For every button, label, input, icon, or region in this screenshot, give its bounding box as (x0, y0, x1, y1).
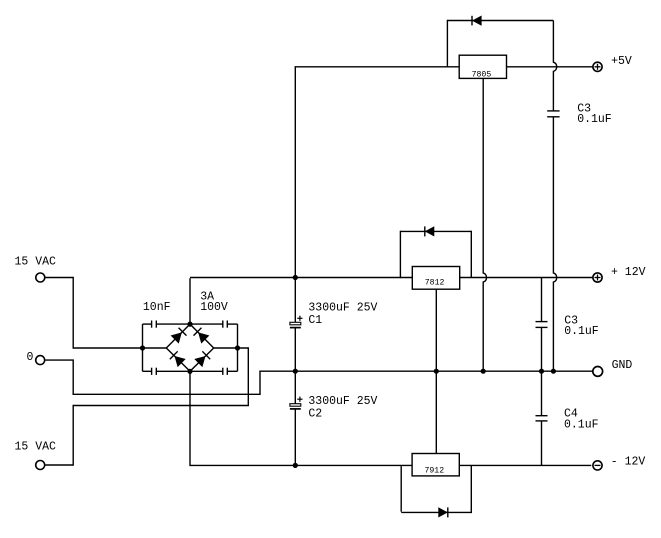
bridge frame right edge (237, 324, 239, 371)
junction GND / C3-C4 (539, 369, 544, 374)
diode bridge D3 (bottom to left) (170, 351, 185, 366)
svg-text:7912: 7912 (424, 467, 444, 476)
bridge frame bottom edge (143, 370, 238, 372)
junction raw- / C2 (293, 463, 298, 468)
bridge frame left edge (142, 324, 144, 371)
label 0 (27, 351, 34, 364)
svg-text:+ 12V: + 12V (611, 266, 646, 279)
diode D6 across 7812 (425, 226, 434, 236)
capacitor 10nF bottom-right (223, 368, 228, 375)
capacitor C4 plates (536, 416, 548, 421)
svg-text:0.1uF: 0.1uF (564, 418, 599, 431)
wire GND rail (260, 370, 592, 372)
regulator U3 7912 box (412, 454, 459, 476)
svg-text:0.1uF: 0.1uF (577, 113, 612, 126)
label 3A (200, 290, 214, 303)
wire mid C3 column (541, 278, 543, 372)
svg-text:C2: C2 (308, 408, 322, 421)
label +5V (611, 55, 632, 68)
svg-text:10nF: 10nF (143, 301, 171, 314)
regulator U2 7812 box (412, 267, 459, 290)
label - 12V (611, 455, 646, 468)
diode bridge D4 (bottom to right) (195, 351, 210, 366)
capacitor 10nF top-left (152, 321, 157, 328)
diode D5 across 7805 (472, 16, 481, 26)
terminal 15 VAC top (36, 273, 45, 282)
junction GND / C1-C2 (293, 369, 298, 374)
junction bridge top (187, 322, 192, 327)
capacitor C1 polarized plate (290, 322, 301, 327)
label 7912 (424, 467, 444, 476)
label C3 top (577, 102, 591, 115)
bridge diamond edge B-R (190, 348, 214, 371)
label 15 VAC bottom (15, 441, 57, 454)
wire 7812 output to +12V terminal (460, 277, 594, 279)
junction bridge left (140, 345, 145, 350)
label 7805 (472, 71, 492, 80)
regulator U1 7805 box (459, 55, 506, 78)
wire bridge AC1 to left node (143, 347, 167, 349)
wire 7805 ground pin (483, 78, 486, 371)
label + C2 polarity (297, 397, 302, 402)
label 10nF (143, 301, 171, 314)
label GND (612, 359, 633, 372)
label 7812 (425, 279, 445, 288)
svg-text:15 VAC: 15 VAC (15, 441, 57, 454)
label C4 (564, 407, 578, 420)
terminal 15 VAC bottom (36, 461, 45, 470)
label 3300uF 25V C2 (308, 395, 377, 408)
label C1 (308, 314, 322, 327)
wire 7812 protection loop (400, 231, 471, 279)
svg-text:7812: 7812 (425, 279, 445, 288)
capacitor C2 polarized plate (290, 404, 301, 409)
label 15 VAC top (15, 255, 57, 268)
svg-text:7805: 7805 (472, 71, 492, 80)
wire 0 input (45, 359, 260, 395)
svg-text:15 VAC: 15 VAC (15, 255, 57, 268)
capacitor C3 top plates (547, 111, 559, 117)
label 0.1uF top (577, 113, 612, 126)
wire 7812 ground pin / 7912 ground pin (435, 289, 437, 453)
label C2 (308, 408, 322, 421)
junction bridge bottom (187, 369, 192, 374)
bridge frame top edge (143, 323, 238, 325)
svg-text:100V: 100V (200, 301, 228, 314)
terminal +5V (593, 62, 602, 71)
diode bridge D2 (right to top) (194, 328, 209, 343)
label + C1 polarity (297, 316, 302, 321)
svg-text:C1: C1 (308, 314, 322, 327)
wire raw- to 7912 input (295, 464, 412, 466)
diode bridge D1 (left to top) (171, 328, 186, 343)
capacitor C3 mid plates (536, 322, 548, 328)
wire 7805 protection loop (447, 20, 553, 68)
svg-text:3300uF 25V: 3300uF 25V (308, 395, 377, 408)
wire 15VAC bottom input (45, 347, 249, 465)
label 0.1uF mid (564, 325, 599, 338)
svg-text:0.1uF: 0.1uF (564, 325, 599, 338)
junction bridge right (235, 345, 240, 350)
label 100V (200, 301, 228, 314)
label C3 mid (564, 314, 578, 327)
capacitor 10nF bottom-left (152, 368, 157, 375)
label 0.1uF C4 (564, 418, 599, 431)
svg-text:0: 0 (27, 351, 34, 364)
wire 7912 protection loop (401, 465, 471, 513)
junction GND / regulator pins (434, 369, 439, 374)
svg-text:3300uF 25V: 3300uF 25V (308, 301, 377, 314)
terminal +12V (593, 273, 602, 282)
wire 15VAC top input (45, 277, 143, 349)
diode D7 across 7912 (439, 507, 448, 517)
wire bridge - output riser (190, 371, 295, 467)
wire 7805 output to +5V terminal (507, 66, 594, 68)
bridge diamond edge B-L (166, 348, 190, 371)
wire main filter column (294, 67, 296, 466)
junction GND / 7805 ground (481, 369, 486, 374)
terminal 0 (center tap) (36, 356, 45, 365)
wire bridge + output riser (190, 278, 295, 324)
bridge diamond edge L-T (166, 324, 190, 348)
junction GND / top C3 (551, 369, 556, 374)
terminal -12V (593, 461, 602, 470)
svg-text:- 12V: - 12V (611, 455, 646, 468)
svg-text:GND: GND (612, 359, 633, 372)
terminal GND (593, 367, 603, 377)
wire 7805 input riser (295, 66, 460, 68)
svg-text:+5V: +5V (611, 55, 632, 68)
wire raw+ to 7812 input (295, 277, 412, 279)
wire top C3 column (553, 21, 556, 372)
junction raw+ / C1 (293, 275, 298, 280)
wire C4 column (541, 371, 543, 465)
wire 7912 output to -12V terminal (459, 464, 591, 466)
label 3300uF 25V C1 (308, 301, 377, 314)
label + 12V (611, 266, 646, 279)
capacitor 10nF top-right (223, 321, 228, 328)
bridge diamond edge R-T (190, 324, 214, 348)
